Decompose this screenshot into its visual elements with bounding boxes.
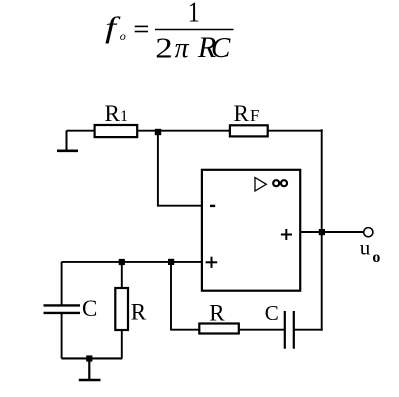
resistor R2 (left, vertical) (115, 288, 128, 330)
wire node A down to minus input (158, 132, 203, 206)
svg-text:1: 1 (120, 108, 128, 125)
wire bottom (cap to R2) (62, 357, 123, 359)
resistor R1 (95, 125, 138, 137)
op-amp infinity symbol (273, 180, 279, 186)
node output junction dot (319, 229, 325, 235)
svg-text:R: R (209, 301, 225, 326)
svg-text:u: u (360, 236, 371, 260)
svg-text:R: R (105, 101, 121, 126)
resistor R3 (bottom, series) (199, 324, 239, 334)
formula equals sign (135, 25, 148, 27)
capacitor C1 (left, parallel) (44, 304, 81, 306)
wire plus input horizontal (62, 261, 203, 263)
svg-text:C: C (82, 296, 97, 321)
ground G1 (top left) (57, 131, 78, 151)
op-amp triangle symbol (255, 178, 266, 192)
wire node C down to series R (171, 262, 199, 330)
wire left vertical upper (to cap C1) (61, 262, 63, 305)
wire left vertical lower (61, 313, 63, 358)
wire R2 bottom lead (121, 330, 123, 358)
svg-text:o: o (372, 249, 380, 266)
resistor RF (230, 125, 268, 136)
svg-text:F: F (250, 106, 259, 125)
wire right vertical (RF to bottom RC) (321, 129, 323, 330)
ground G2 (bottom) (79, 358, 101, 380)
wire RF to right vertical (268, 130, 323, 132)
wire R1 to RF (137, 130, 230, 132)
wire op-amp output to terminal (300, 231, 364, 233)
svg-text:C: C (265, 301, 279, 325)
capacitor C2 (bottom, series) (284, 311, 286, 349)
svg-text:π: π (175, 33, 190, 64)
svg-text:o: o (120, 29, 126, 43)
wire R3 to C2 (239, 329, 285, 331)
formula fraction bar (155, 29, 234, 31)
svg-text:C: C (211, 32, 231, 64)
node B junction dot (R top) (119, 259, 125, 265)
node A junction dot (155, 129, 161, 135)
svg-text:2: 2 (155, 33, 173, 65)
node C junction dot (to series RC) (168, 259, 174, 265)
svg-text:R: R (234, 101, 250, 126)
op-amp plus input sign (206, 261, 218, 263)
svg-text:1: 1 (188, 0, 200, 29)
op-amp U1 box (202, 170, 300, 291)
svg-text:R: R (131, 299, 147, 324)
node D junction dot (ground) (86, 355, 92, 361)
op-amp output plus sign (281, 234, 292, 236)
wire ground G1 to R1 (67, 130, 94, 132)
op-amp minus input sign (210, 205, 215, 207)
wire R2 top lead (121, 262, 123, 288)
output terminal circle (364, 228, 373, 237)
wire C2 to right vertical (294, 329, 323, 331)
